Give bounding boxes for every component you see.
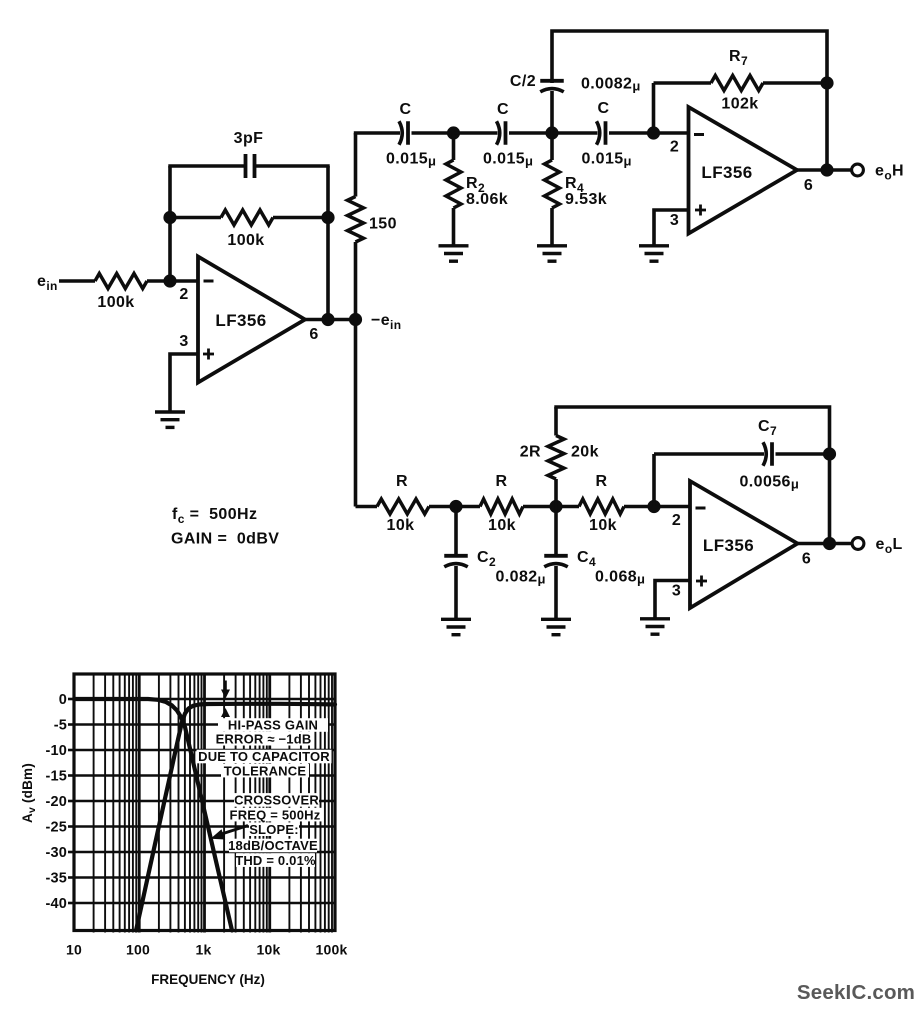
wire main branch top (to 150) xyxy=(354,133,358,197)
wire U2 output xyxy=(797,168,851,172)
ground U1 pin 3 xyxy=(155,412,185,427)
wire C7 to right junction xyxy=(776,452,830,456)
wire R4 node to third C xyxy=(552,131,598,135)
svg-text:LF356: LF356 xyxy=(703,536,754,555)
svg-text:GAIN = 0dBV: GAIN = 0dBV xyxy=(171,531,279,548)
capacitor C second 0.015u xyxy=(497,121,506,145)
svg-text:100: 100 xyxy=(126,942,150,958)
label R (second) xyxy=(496,473,508,490)
svg-text:-15: -15 xyxy=(45,769,67,785)
value label 0.068u xyxy=(595,569,645,587)
value label 20k xyxy=(571,444,599,461)
resistor R7 102k xyxy=(654,76,828,91)
axis ticks left xyxy=(68,699,74,903)
svg-text:10k: 10k xyxy=(257,942,281,958)
capacitor 3pF feedback xyxy=(246,154,255,178)
label C (first cap) xyxy=(400,101,412,118)
y-axis title Av (dBm) xyxy=(20,763,38,823)
plot border xyxy=(74,674,335,931)
svg-text:2: 2 xyxy=(179,286,188,303)
marker arrow lower (gain error) xyxy=(221,708,230,717)
value label 10k (first) xyxy=(387,517,415,534)
node R7 right junction xyxy=(820,76,833,89)
net label e_oL xyxy=(876,536,903,556)
svg-text:9.53k: 9.53k xyxy=(565,191,607,208)
node e_in input terminal label xyxy=(37,273,58,293)
wire U1 output xyxy=(305,318,361,322)
node C2 junction xyxy=(449,500,462,513)
svg-text:TOLERANCE: TOLERANCE xyxy=(224,763,307,778)
terminal e_oL xyxy=(852,538,864,550)
watermark SeekIC.com xyxy=(797,981,915,1004)
svg-text:LF356: LF356 xyxy=(701,163,752,182)
value label 100k (feedback) xyxy=(227,232,264,249)
pin label 6 (U2) xyxy=(804,177,813,194)
svg-text:0.082μ: 0.082μ xyxy=(496,569,546,587)
wire R1 to op-amp U1 pin 2 xyxy=(147,279,198,283)
annotation text CROSSOVER FREQ block xyxy=(230,793,321,823)
resistor R4 9.53k xyxy=(545,133,560,246)
wire LP chain start xyxy=(356,505,378,509)
value label 3pF xyxy=(234,130,264,147)
svg-text:SeekIC.com: SeekIC.com xyxy=(797,981,915,1004)
curve low-pass response xyxy=(74,699,232,931)
wire C7 left lead xyxy=(654,452,764,456)
wire C2 to R4 node xyxy=(509,131,552,135)
svg-text:R: R xyxy=(396,473,408,490)
pin label 6 (U1) xyxy=(309,326,318,343)
svg-text:2: 2 xyxy=(670,139,679,156)
svg-text:FREQ = 500Hz: FREQ = 500Hz xyxy=(230,807,321,822)
svg-text:1k: 1k xyxy=(196,942,212,958)
svg-text:-10: -10 xyxy=(45,743,67,759)
svg-text:C/2: C/2 xyxy=(510,73,536,90)
wire feedback right vertical (U1) xyxy=(326,166,330,320)
svg-text:-35: -35 xyxy=(45,871,67,887)
terminal e_oH xyxy=(852,164,864,176)
ref label R2 xyxy=(466,175,485,195)
ref label R4 xyxy=(565,175,584,195)
wire C7 right to output node xyxy=(828,454,832,544)
minus sign U2 pin2 xyxy=(694,133,704,136)
y-axis tick labels xyxy=(45,692,67,912)
wire R7 right to output node xyxy=(825,83,829,170)
svg-text:102k: 102k xyxy=(721,96,758,113)
annotation text HI-PASS GAIN ERROR block xyxy=(198,718,330,779)
node U2 output junction xyxy=(820,163,833,176)
svg-text:0.0082μ: 0.0082μ xyxy=(581,76,641,94)
ground C4 xyxy=(541,619,571,634)
svg-text:6: 6 xyxy=(802,551,811,568)
value label 8.06k xyxy=(466,191,508,208)
svg-text:R: R xyxy=(496,473,508,490)
net label -e_in xyxy=(371,312,402,332)
resistor R second 10k xyxy=(480,499,523,514)
wire C1 to R2 node xyxy=(412,131,454,135)
svg-text:10k: 10k xyxy=(589,517,617,534)
svg-text:3pF: 3pF xyxy=(234,130,264,147)
svg-text:6: 6 xyxy=(804,177,813,194)
value label 150 xyxy=(369,216,397,233)
wire R2 to C4 node xyxy=(523,505,579,509)
wire R1 to C2 node xyxy=(429,505,480,509)
ref label C2 xyxy=(477,549,496,569)
svg-text:2: 2 xyxy=(672,512,681,529)
svg-text:-30: -30 xyxy=(45,845,67,861)
node R4 / C-half junction xyxy=(545,126,558,139)
svg-text:0.015μ: 0.015μ xyxy=(582,151,632,169)
capacitor C third 0.015u xyxy=(597,121,606,145)
grid horizontal 5dB lines xyxy=(74,699,335,903)
value label 0.0056u xyxy=(740,474,800,492)
plus sign U1 pin3 xyxy=(203,349,214,360)
svg-text:THD = 0.01%: THD = 0.01% xyxy=(235,853,316,868)
pin label 6 (U3) xyxy=(802,551,811,568)
resistor R1 100k input xyxy=(95,274,147,289)
ref label C4 xyxy=(577,549,596,569)
wire HP chain start xyxy=(354,131,400,135)
pin label 3 (U1) xyxy=(179,333,188,350)
pin label 2 (U1) xyxy=(179,286,188,303)
value label 9.53k xyxy=(565,191,607,208)
svg-text:-20: -20 xyxy=(45,794,67,810)
node U2 pin2 junction xyxy=(647,126,660,139)
label C (second cap) xyxy=(497,101,509,118)
resistor 2R 20k xyxy=(548,407,564,507)
pin label 2 (U3) xyxy=(672,512,681,529)
svg-text:100k: 100k xyxy=(227,232,264,249)
wire e_in to R1 xyxy=(59,279,95,283)
capacitor C4 0.068u xyxy=(544,507,568,620)
svg-text:0.015μ: 0.015μ xyxy=(483,151,533,169)
svg-text:C: C xyxy=(400,101,412,118)
pin label 2 (U2) xyxy=(670,139,679,156)
svg-text:3: 3 xyxy=(179,333,188,350)
svg-text:150: 150 xyxy=(369,216,397,233)
capacitor C7 0.0056u xyxy=(763,442,772,466)
wire 3pF row left xyxy=(168,164,244,168)
resistor R third 10k xyxy=(579,499,624,514)
svg-text:C: C xyxy=(598,100,610,117)
resistor 150 xyxy=(348,197,364,243)
resistor 100k feedback (U1) xyxy=(170,210,328,225)
ref label C7 xyxy=(758,418,777,438)
capacitor C first 0.015u xyxy=(399,121,408,145)
svg-text:10k: 10k xyxy=(488,517,516,534)
svg-text:ERROR ≈ −1dB: ERROR ≈ −1dB xyxy=(216,731,312,746)
value label 0.015u (second) xyxy=(483,151,533,169)
wire C3 to U2 pin 2 xyxy=(609,131,689,135)
node -e_in junction xyxy=(349,313,362,326)
ref label 2R xyxy=(520,444,541,461)
annotation text SLOPE THD block xyxy=(228,822,318,868)
wire feedback left vertical (U1) xyxy=(168,166,172,283)
node U3 pin2 junction xyxy=(647,500,660,513)
svg-text:8.06k: 8.06k xyxy=(466,191,508,208)
wire R3 to U3 pin 2 xyxy=(624,505,690,509)
note fc = 500Hz xyxy=(172,506,257,526)
value label 102k xyxy=(721,96,758,113)
marker arrow upper (gain error) xyxy=(221,681,230,699)
wire 3pF row right xyxy=(256,164,330,168)
wire main branch 150 to low-pass corner xyxy=(354,242,358,507)
value label 0.015u (third) xyxy=(582,151,632,169)
value label 10k (second) xyxy=(488,517,516,534)
svg-text:2R: 2R xyxy=(520,444,541,461)
plus sign U3 pin3 xyxy=(696,576,707,587)
wire HP pin2 vertical to R7 row xyxy=(652,83,656,133)
wire 2R top feedback run xyxy=(554,407,829,455)
svg-text:100k: 100k xyxy=(97,294,134,311)
svg-text:-5: -5 xyxy=(54,718,67,734)
value label 10k (third) xyxy=(589,517,617,534)
value label 0.015u (first) xyxy=(386,151,436,169)
svg-text:R: R xyxy=(596,473,608,490)
wire U2 pin 3 to ground xyxy=(654,210,689,245)
node U1 output / feedback junction xyxy=(321,313,334,326)
note GAIN = 0dBV xyxy=(171,531,279,548)
ground U3 pin 3 xyxy=(640,619,670,634)
svg-text:10k: 10k xyxy=(387,517,415,534)
minus sign U3 pin2 xyxy=(696,507,706,510)
minus sign U1 pin2 xyxy=(204,280,214,283)
node C7 right junction xyxy=(823,447,836,460)
wire U3 pin 3 to ground xyxy=(655,581,690,619)
svg-text:10: 10 xyxy=(66,942,82,958)
svg-text:20k: 20k xyxy=(571,444,599,461)
svg-text:3: 3 xyxy=(672,583,681,600)
svg-text:6: 6 xyxy=(309,326,318,343)
label LF356 (U1) xyxy=(215,311,266,330)
label C (third cap) xyxy=(598,100,610,117)
svg-text:0.0056μ: 0.0056μ xyxy=(740,474,800,492)
svg-text:FREQUENCY (Hz): FREQUENCY (Hz) xyxy=(151,972,265,987)
svg-text:C: C xyxy=(497,101,509,118)
ref label C/2 xyxy=(510,73,536,90)
svg-text:-40: -40 xyxy=(45,896,67,912)
ground U2 pin 3 xyxy=(639,246,669,261)
svg-text:0.015μ: 0.015μ xyxy=(386,151,436,169)
wire U1 pin 3 to ground xyxy=(170,354,198,412)
value label 100k (input resistor) xyxy=(97,294,134,311)
label R (third) xyxy=(596,473,608,490)
node C4 / 2R junction xyxy=(549,500,562,513)
annotation text backing xyxy=(197,718,332,867)
ref label R7 xyxy=(729,48,748,68)
grid minor vertical log lines xyxy=(94,674,332,933)
capacitor C2 0.082u xyxy=(444,507,468,620)
svg-text:CROSSOVER: CROSSOVER xyxy=(234,793,319,808)
svg-text:DUE TO CAPACITOR: DUE TO CAPACITOR xyxy=(198,749,330,764)
wire C/2 lower lead xyxy=(550,91,554,133)
node pin2 junction U1 xyxy=(163,274,176,287)
resistor R2 8.06k xyxy=(446,133,461,246)
ground C2 xyxy=(441,619,471,634)
resistor R first 10k xyxy=(377,499,429,514)
grid major decade lines xyxy=(139,674,270,933)
node feedback right junction (U1 100k row) xyxy=(321,211,334,224)
pin label 3 (U2) xyxy=(670,212,679,229)
node R2 junction xyxy=(447,126,460,139)
svg-text:0.068μ: 0.068μ xyxy=(595,569,645,587)
node U3 output junction xyxy=(823,537,836,550)
ground R4 xyxy=(537,246,567,261)
wire R2 node to second C xyxy=(454,131,498,135)
svg-text:SLOPE:: SLOPE: xyxy=(249,822,299,837)
svg-text:3: 3 xyxy=(670,212,679,229)
svg-text:100k: 100k xyxy=(316,942,348,958)
label LF356 (U3) xyxy=(703,536,754,555)
node feedback left junction (U1 100k row) xyxy=(163,211,176,224)
value label 0.082u xyxy=(496,569,546,587)
x-axis title FREQUENCY (Hz) xyxy=(151,972,265,987)
label LF356 (U2) xyxy=(701,163,752,182)
ground R2 xyxy=(439,246,469,261)
svg-text:-25: -25 xyxy=(45,820,67,836)
wire U3 output xyxy=(798,542,852,546)
plus sign U2 pin3 xyxy=(695,205,706,216)
op-amp U3 LF356 triangle xyxy=(690,481,798,608)
svg-text:LF356: LF356 xyxy=(215,311,266,330)
pin label 3 (U3) xyxy=(672,583,681,600)
arrow to low-pass slope xyxy=(211,826,249,840)
op-amp U1 LF356 triangle xyxy=(198,257,305,383)
op-amp U2 LF356 triangle xyxy=(689,107,798,234)
wire LP pin2 vertical to C7 row xyxy=(652,454,656,507)
value label 0.0082u xyxy=(581,76,641,94)
net label e_oH xyxy=(875,163,904,183)
capacitor C/2 0.0082u xyxy=(540,81,564,92)
label R (first) xyxy=(396,473,408,490)
x-axis tick labels xyxy=(66,942,347,958)
curve high-pass response xyxy=(136,704,335,931)
svg-text:0: 0 xyxy=(59,692,67,708)
svg-text:18dB/OCTAVE: 18dB/OCTAVE xyxy=(228,838,318,853)
wire C/2 upper lead + top feedback run xyxy=(552,31,827,84)
